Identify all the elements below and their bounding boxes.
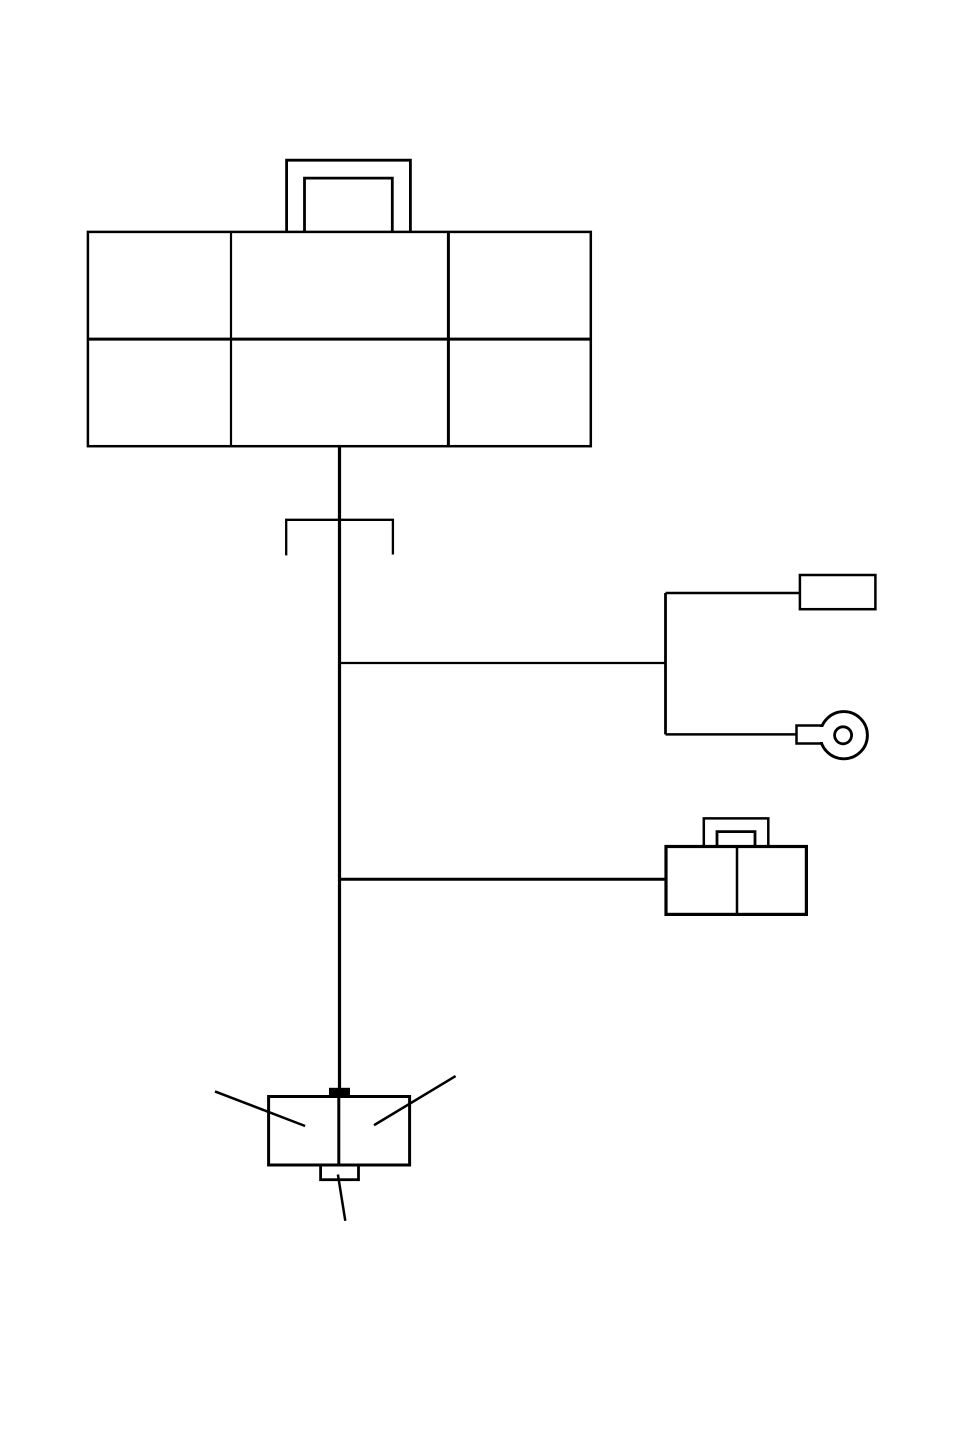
- sensor terminal block (filled): [329, 1088, 350, 1097]
- connector J1 latch inner: [305, 178, 393, 232]
- connector J1 right cavity divider: [447, 232, 450, 446]
- wire branch to fuse/ring terminal: [340, 662, 666, 664]
- ring terminal E1 eye: [835, 727, 852, 744]
- sensor body: [269, 1097, 410, 1166]
- wire riser (right branch vertical): [664, 593, 667, 734]
- connector J2 cavity divider: [736, 847, 739, 915]
- sensor boss: [321, 1165, 359, 1180]
- leader line left: [215, 1091, 305, 1126]
- connector J2 latch inner: [717, 832, 755, 846]
- harness clamp: [286, 520, 393, 556]
- connector J1 latch outer: [287, 160, 411, 231]
- connector J1 row divider: [88, 338, 591, 341]
- wire branch to connector J2: [340, 878, 667, 881]
- connector J2 latch outer: [704, 818, 769, 845]
- wire main harness (vertical): [338, 446, 341, 1090]
- connector J1 left cavity divider: [230, 232, 232, 446]
- ring terminal E1 ring: [820, 712, 867, 759]
- connector J1 body (6-cavity connector): [88, 232, 591, 446]
- leader line right: [374, 1076, 456, 1125]
- sensor body divider: [337, 1097, 340, 1166]
- wire to ring terminal E1: [666, 733, 797, 736]
- ring terminal E1 barrel: [798, 727, 830, 742]
- fuse F1: [800, 575, 876, 609]
- leader line bottom: [338, 1175, 345, 1221]
- wire to fuse F1: [666, 592, 800, 595]
- connector J2 body (2-cavity connector): [666, 847, 806, 915]
